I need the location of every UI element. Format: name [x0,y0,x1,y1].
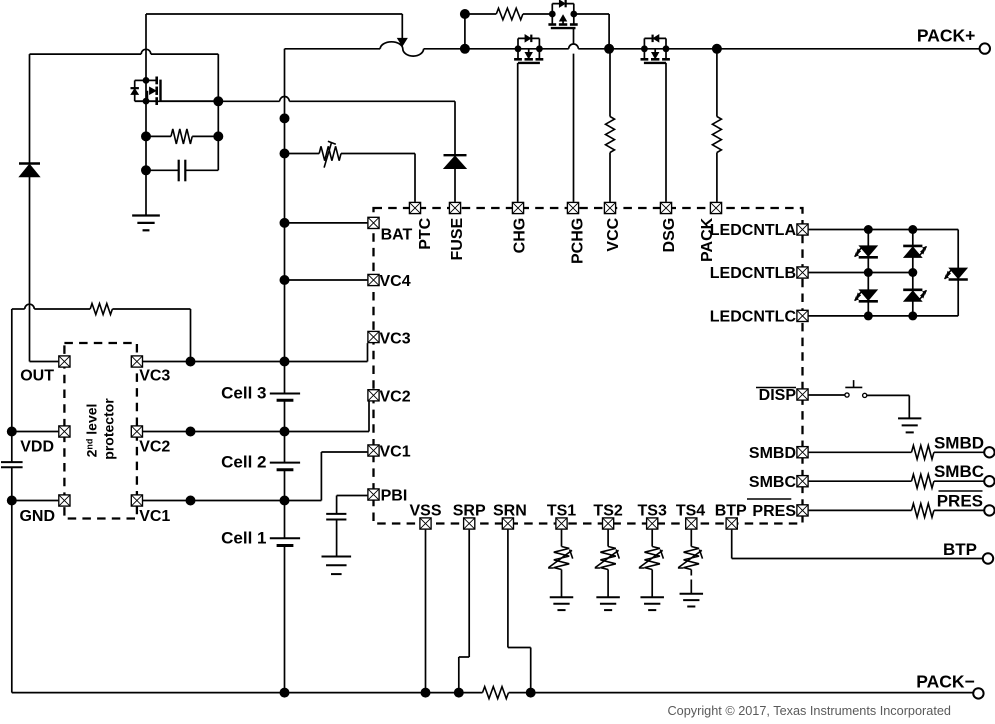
svg-text:PTC: PTC [417,217,434,249]
svg-text:VC1: VC1 [380,444,411,461]
svg-text:VC3: VC3 [139,368,170,385]
svg-text:TS2: TS2 [593,503,622,520]
svg-text:VDD: VDD [20,439,54,456]
svg-text:PACK−: PACK− [916,672,975,692]
svg-text:DISP: DISP [759,387,797,404]
svg-text:PRES: PRES [937,492,983,511]
svg-text:VC2: VC2 [380,388,411,405]
svg-text:LEDCNTLA: LEDCNTLA [710,222,797,239]
svg-text:Cell 2: Cell 2 [221,453,266,472]
svg-text:PRES: PRES [752,503,796,520]
svg-text:protector: protector [101,398,117,460]
svg-text:PBI: PBI [381,488,408,505]
svg-text:VC1: VC1 [139,508,170,525]
svg-text:DSG: DSG [661,218,678,253]
svg-text:SMBC: SMBC [934,462,984,481]
svg-text:TS1: TS1 [547,503,576,520]
svg-text:VC3: VC3 [380,330,411,347]
svg-text:TS4: TS4 [676,503,705,520]
svg-text:OUT: OUT [20,368,54,385]
svg-text:SRP: SRP [453,503,486,520]
svg-text:Cell 1: Cell 1 [221,528,266,547]
svg-text:SMBD: SMBD [934,433,984,452]
svg-text:SRN: SRN [493,503,527,520]
svg-text:SMBC: SMBC [749,474,797,491]
svg-text:PCHG: PCHG [570,218,587,264]
svg-text:BTP: BTP [943,540,977,559]
svg-text:GND: GND [19,508,55,525]
svg-text:BAT: BAT [381,227,413,244]
svg-text:VC4: VC4 [380,273,411,290]
svg-text:FUSE: FUSE [449,217,466,260]
svg-text:SMBD: SMBD [749,445,796,462]
svg-text:BTP: BTP [715,503,747,520]
svg-text:LEDCNTLB: LEDCNTLB [710,265,796,282]
svg-text:VSS: VSS [409,503,441,520]
svg-text:CHG: CHG [512,218,529,254]
svg-text:Cell 3: Cell 3 [221,384,266,403]
svg-text:TS3: TS3 [638,503,667,520]
svg-text:VCC: VCC [605,217,622,251]
svg-text:PACK+: PACK+ [917,25,976,45]
svg-text:LEDCNTLC: LEDCNTLC [710,309,797,326]
svg-text:Copyright © 2017, Texas Instru: Copyright © 2017, Texas Instruments Inco… [668,704,951,718]
svg-text:VC2: VC2 [139,439,170,456]
